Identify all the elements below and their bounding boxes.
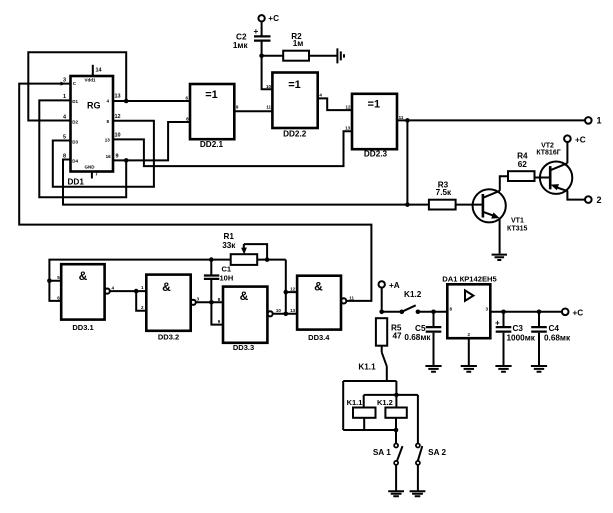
DD1 pin 14 Vdd stub [93,65,103,76]
svg-text:62: 62 [518,160,528,169]
wire: C1 leads [210,260,212,303]
svg-text:+: + [254,27,259,36]
ground (DA1) [461,366,477,372]
resistor R4 [508,152,535,182]
svg-text:=1: =1 [288,79,301,91]
node: junction output bus / DD2.3 output [405,202,410,207]
svg-text:2: 2 [597,195,602,205]
svg-text:&: & [314,280,323,294]
svg-text:1мк: 1мк [233,41,249,50]
node: junction DD2.3 output [405,118,410,123]
node: DD3.1 input junction [47,278,52,283]
svg-text:1м: 1м [293,39,304,48]
svg-text:R4: R4 [517,152,528,161]
svg-text:33к: 33к [222,241,236,250]
svg-text:+C: +C [575,135,586,144]
svg-text:DD3.3: DD3.3 [233,343,254,352]
contact K1.1 [358,346,386,381]
svg-text:DD3.4: DD3.4 [308,333,330,342]
gate DD3.1 [57,264,114,319]
gate DD2.1 [185,84,238,139]
svg-text:D3: D3 [72,139,78,144]
ground (C3) [495,366,511,372]
svg-text:10Н: 10Н [220,273,234,282]
wire: C3 leads [503,312,505,366]
node: junction C2/R2 [259,54,264,59]
wire: DD1 pin 12 to D3 input [53,121,154,187]
clock input arrow [61,82,67,86]
svg-text:C1: C1 [222,265,232,274]
wire: DD3.4 output feedback to DD1 pin C [19,84,371,301]
svg-text:7.5к: 7.5к [436,188,452,197]
DD3.1 output bubble [105,289,110,294]
svg-text:13: 13 [290,308,296,313]
svg-text:DA1 КР142ЕН5: DA1 КР142ЕН5 [442,275,497,284]
transistor VT1 [473,189,506,222]
wire: VT1 collector to R4 [500,176,509,191]
svg-text:9: 9 [116,154,119,160]
wire: feedback pin9 to D1 input [39,100,126,197]
svg-text:+C: +C [268,14,279,23]
wire: +A down [381,288,383,312]
wire: switch output rail [343,381,418,430]
wire: DD3.1 output to DD3.2 inputs [110,291,147,311]
svg-text:DD2.3: DD2.3 [364,150,388,159]
svg-text:0.68мк: 0.68мк [404,333,431,342]
gate DD3.4 [290,276,354,330]
ground (C4) [531,366,547,372]
node: coil rail junction [394,393,399,398]
terminal 2 [585,195,602,205]
svg-text:11: 11 [266,104,271,109]
svg-text:8: 8 [63,153,66,159]
contact K1.2 [382,290,422,314]
regulator DA1 [447,284,490,338]
DD3.2 output bubble [191,300,196,305]
wire: C5 leads [433,312,435,366]
DD3.3 output bubble [268,311,273,316]
wire: DD1 pin 10 to DD2.3 input 2 [113,131,352,166]
gate DD3.3 [218,287,282,343]
svg-text:C3: C3 [513,324,524,333]
svg-text:10: 10 [115,133,121,139]
svg-text:C4: C4 [549,324,560,333]
svg-text:DD2.2: DD2.2 [283,130,307,139]
gate DD2.3 [345,94,404,149]
svg-text:КТ315: КТ315 [507,226,528,233]
DD1 pin 7 GND stub [92,172,98,179]
wire: +C to C2 [261,22,263,37]
svg-text:12: 12 [290,287,296,292]
svg-text:GND: GND [85,165,96,170]
svg-text:+A: +A [389,281,400,290]
wire: C4 leads [538,312,540,366]
wire: coil bottoms to rail [343,418,396,430]
svg-text:DD1: DD1 [68,178,85,187]
svg-text:1: 1 [63,94,66,100]
wire: R2 to ground [309,55,337,57]
wire: DD2.2 output to DD2.3 input 1 [318,98,352,110]
wire: DD2.1 output to DD2.2 input 2 [234,110,272,112]
svg-text:13: 13 [105,137,111,142]
svg-text:DD2.1: DD2.1 [200,140,224,149]
ground (R2) [337,48,344,63]
wire: DD2.3 output down to bus [406,120,408,204]
node: DD3.4 input junctions [284,290,289,295]
terminal +C (VT2) [564,135,586,144]
svg-text:VT1: VT1 [511,217,524,224]
wire: K1.2 to DA1 input [418,311,447,313]
svg-text:D4: D4 [72,159,78,164]
svg-text:Vdd1: Vdd1 [85,78,96,83]
svg-text:RG: RG [87,101,101,111]
svg-text:K1.2: K1.2 [404,290,422,299]
node: +A junction [379,310,384,315]
terminal +C (output) [562,308,583,317]
svg-text:D1: D1 [72,99,78,104]
relay coil K1.1 [347,398,376,418]
svg-text:1: 1 [597,116,602,126]
capacitor C3 [495,318,536,342]
svg-text:+: + [495,318,500,327]
IC DD1 register box [71,76,114,172]
svg-text:D2: D2 [72,119,78,124]
svg-text:C5: C5 [415,324,426,333]
wire: R4 to VT2 base [536,177,551,179]
DD3.4 output bubble [341,298,346,303]
capacitor C4 [531,324,571,343]
wire: R3 to VT1 base [456,204,483,206]
svg-text:14: 14 [96,68,103,74]
node: C3 junction [501,310,506,315]
transistor VT2 [540,162,572,194]
svg-text:16: 16 [106,154,112,159]
svg-text:1000мк: 1000мк [507,334,536,343]
svg-text:K1.1: K1.1 [358,363,376,372]
capacitor C5 [404,324,441,342]
switch SA1 [394,430,402,491]
node: DD3.2 input junction [134,289,139,294]
wire: VT2 collector to +C [566,142,568,163]
svg-text:5: 5 [63,134,66,140]
resistor R3 [429,180,456,209]
ground (SA2) [410,491,426,496]
resistor R1 [222,232,257,265]
resistor R2 [283,32,309,61]
svg-text:13: 13 [345,126,351,131]
gate DD3.2 [141,275,200,331]
ground (C5) [425,366,441,372]
node: C1 top junction [209,257,214,262]
relay coil K1.2 [377,398,407,418]
node: junction pin13/feedback [124,99,129,104]
wire: DD1 pin 9 to DD2.1 input 2 [113,122,190,160]
svg-text:&: & [240,289,249,303]
svg-text:&: & [162,280,171,294]
capacitor C1 [204,265,233,283]
R1 wiper arm [244,244,267,260]
svg-text:7: 7 [95,172,98,178]
node: C5 junction [431,310,436,315]
wire: RC oscillator line to R1 [49,260,230,281]
svg-text:12: 12 [345,105,351,110]
svg-text:0.68мк: 0.68мк [544,334,571,343]
wire: DA1 output to +C [490,311,562,313]
svg-text:R1: R1 [223,232,234,241]
wire: node to R2 [262,55,284,57]
svg-text:11: 11 [399,115,404,120]
svg-text:КТ816Г: КТ816Г [536,150,560,157]
wire: DD1 pin 13 to DD2.1 input 1 [113,100,190,102]
svg-text:3: 3 [63,77,66,83]
wire: C2 to DD2.2 input 1 [262,41,273,90]
wire: D4 input to output bus line [63,160,429,205]
node: SA1 junction [394,428,399,433]
terminal +C top [258,14,279,23]
svg-text:VT2: VT2 [541,142,554,149]
svg-text:=1: =1 [368,98,381,110]
wire: DA1 ground pin [468,338,470,366]
switch SA2 [416,395,422,491]
wire: DD3.2 output to DD3.3 inputs [196,302,223,324]
svg-text:K1.2: K1.2 [377,398,393,407]
svg-text:K1.1: K1.1 [347,398,363,407]
ground (SA1) [388,491,404,496]
svg-text:11: 11 [349,296,354,301]
wire: R1 right to DD3.4 input [257,259,286,261]
svg-text:DD3.2: DD3.2 [158,333,179,342]
svg-text:&: & [79,269,88,283]
svg-text:DD3.1: DD3.1 [72,323,93,332]
node: C1 bottom junction [209,300,214,305]
terminal +A [379,281,400,290]
node: C4 junction [537,310,542,315]
wire: DD2.3 output to terminal 1 [397,119,585,121]
svg-text:SA 1: SA 1 [373,448,391,457]
DD1 pin numbers right [115,94,121,160]
wire: VT1 emitter to ground [499,218,501,254]
svg-text:13: 13 [115,94,121,100]
DD1 pin numbers left [63,77,67,159]
svg-text:10: 10 [276,308,282,313]
terminal 1 [585,116,602,126]
node: junction pin9/feedback [124,158,129,163]
svg-text:47: 47 [393,331,403,340]
svg-text:12: 12 [115,114,121,120]
resistor R5 [376,318,402,346]
ground (VT1) [492,255,507,260]
svg-text:SA 2: SA 2 [428,448,446,457]
wire: feedback pin13 to D2 input [28,52,126,120]
wire: DD3.1 tied inputs [49,281,61,301]
svg-text:+C: +C [573,308,584,317]
wire: VT2 emitter to terminal 2 [566,191,585,200]
svg-text:=1: =1 [205,89,218,101]
capacitor C2 [233,27,271,50]
gate DD2.2 [266,73,322,129]
wire: DD3.3 output to DD3.4 inputs [273,260,297,314]
